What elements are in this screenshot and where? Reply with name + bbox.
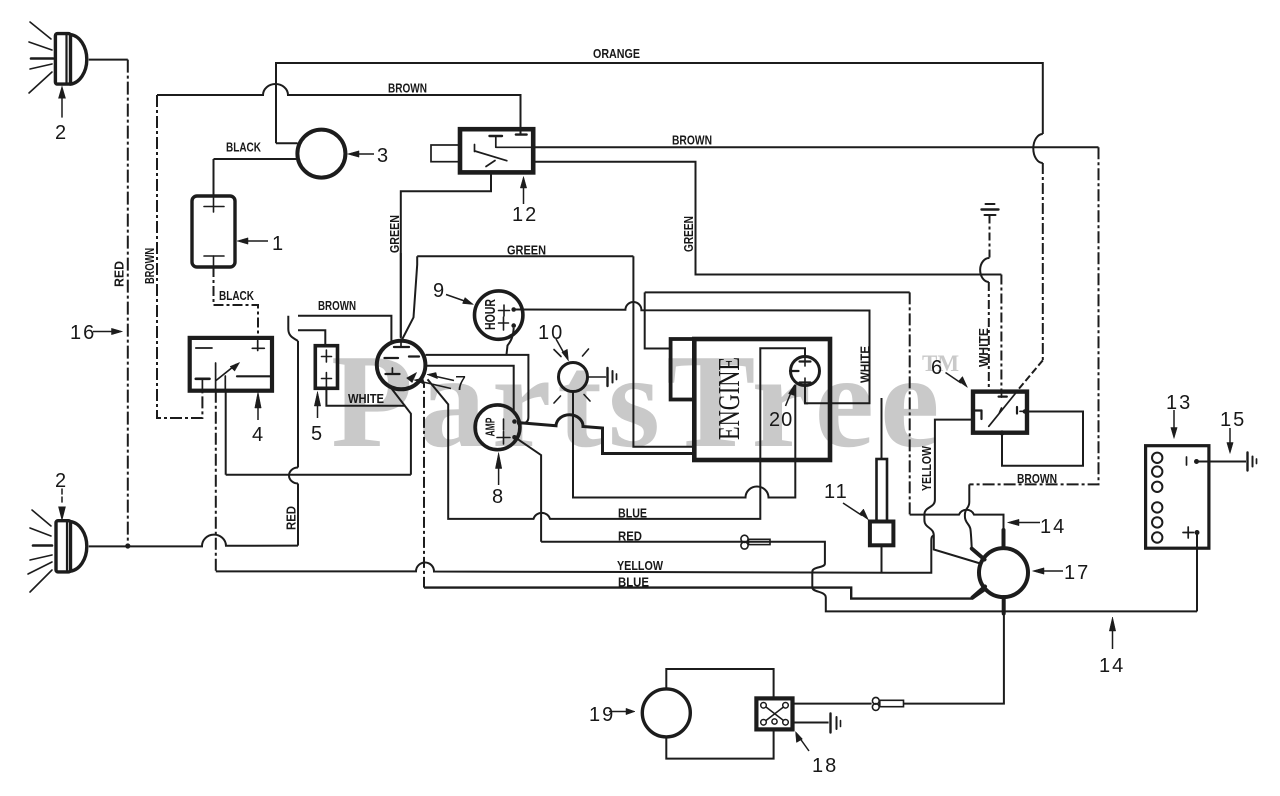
svg-text:ORANGE: ORANGE <box>593 46 640 61</box>
svg-text:BROWN: BROWN <box>1017 471 1057 486</box>
svg-text:WHITE: WHITE <box>348 391 384 406</box>
svg-text:BLUE: BLUE <box>618 506 647 521</box>
svg-text:16: 16 <box>70 322 96 344</box>
svg-text:YELLOW: YELLOW <box>919 445 934 491</box>
svg-text:4: 4 <box>252 424 263 446</box>
svg-text:2: 2 <box>55 470 66 492</box>
svg-text:GREEN: GREEN <box>507 243 546 258</box>
svg-text:3: 3 <box>377 145 388 167</box>
svg-text:BLACK: BLACK <box>219 288 254 303</box>
svg-text:14: 14 <box>1099 655 1125 677</box>
svg-text:RED: RED <box>618 529 642 544</box>
svg-text:15: 15 <box>1220 409 1246 431</box>
svg-text:WHITE: WHITE <box>976 328 991 367</box>
svg-text:8: 8 <box>492 486 503 508</box>
svg-text:WHITE: WHITE <box>858 346 873 383</box>
svg-text:BROWN: BROWN <box>142 248 157 284</box>
svg-text:1: 1 <box>272 233 283 255</box>
svg-text:GREEN: GREEN <box>387 215 402 253</box>
svg-text:RED: RED <box>112 261 127 287</box>
svg-text:2: 2 <box>55 122 66 144</box>
svg-text:BLACK: BLACK <box>226 140 261 155</box>
svg-text:14: 14 <box>1040 516 1066 538</box>
svg-text:9: 9 <box>433 280 444 302</box>
svg-text:RED: RED <box>284 506 299 530</box>
svg-text:20: 20 <box>769 409 793 431</box>
svg-text:13: 13 <box>1166 392 1192 414</box>
svg-text:18: 18 <box>812 755 838 777</box>
svg-text:11: 11 <box>824 481 849 503</box>
svg-text:5: 5 <box>311 423 322 445</box>
svg-text:BROWN: BROWN <box>672 133 712 148</box>
svg-text:6: 6 <box>931 357 942 379</box>
svg-text:12: 12 <box>512 204 538 226</box>
svg-text:10: 10 <box>538 322 564 344</box>
svg-text:BROWN: BROWN <box>318 298 356 313</box>
svg-text:19: 19 <box>589 704 615 726</box>
svg-text:AMP: AMP <box>483 417 498 436</box>
svg-text:17: 17 <box>1064 562 1090 584</box>
svg-text:GREEN: GREEN <box>681 216 696 252</box>
svg-text:7: 7 <box>455 373 466 395</box>
svg-text:BROWN: BROWN <box>388 81 427 96</box>
svg-text:HOUR: HOUR <box>482 299 499 330</box>
svg-text:ENGINE: ENGINE <box>711 357 746 440</box>
svg-text:BLUE: BLUE <box>618 575 649 590</box>
svg-text:YELLOW: YELLOW <box>617 558 664 573</box>
